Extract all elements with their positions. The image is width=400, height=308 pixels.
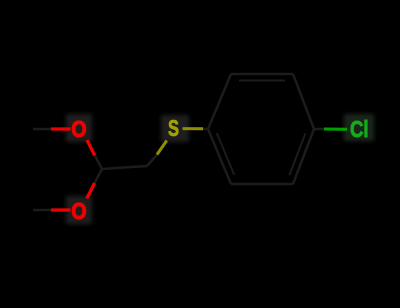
svg-text:Cl: Cl (350, 116, 369, 142)
wire: upper methoxy O half (red) (51, 127, 71, 130)
svg-text:O: O (71, 198, 86, 224)
wire: CH2 to S, carbon half (147, 155, 157, 167)
wire: ring carbon to Cl, carbon half (314, 128, 324, 131)
benzene ring: edge L-TL (208, 74, 231, 129)
wire: S to ring carbon, carbon half (203, 128, 208, 131)
benzene ring: edge R-BR (double bond outer) (293, 129, 314, 184)
wire: O1 to acetal CH, carbon half (95, 156, 102, 170)
benzene ring: edge TR-R (293, 74, 314, 129)
wire: O2 to acetal CH, red half (87, 183, 95, 199)
benzene ring: edge BL-L (double bond outer) (208, 129, 231, 184)
jpeg halo upper O (66, 114, 92, 142)
benzene ring: edge TL-TR (double bond outer) (231, 73, 293, 76)
wire: O2 to acetal CH, carbon half (95, 169, 102, 183)
wire: ring carbon to Cl, chlorine half (green) (324, 127, 347, 130)
benzene ring: edge BR-BL (231, 183, 293, 186)
wire: CH2 to S, sulfur half (olive) (157, 141, 167, 155)
svg-text:S: S (168, 115, 179, 141)
wire: S to ring carbon, sulfur half (olive) (183, 127, 204, 130)
wire: upper methyl C-H3C carbon half (33, 128, 51, 131)
benzene ring: R-BR inner double bond line (289, 133, 305, 175)
jpeg halo S (161, 115, 189, 142)
benzene ring: BL-L inner double bond line (217, 133, 234, 175)
jpeg halo lower O (66, 196, 92, 224)
wire: lower methoxy O half (red) (51, 208, 71, 211)
svg-text:O: O (71, 116, 86, 142)
jpeg halo Cl (344, 114, 374, 141)
wire: lower methyl carbon half (33, 209, 51, 212)
wire: acetal CH to CH2 (carbon-carbon) (102, 166, 147, 169)
wire: O1 to acetal CH, red half (87, 140, 95, 156)
benzene ring: TL-TR inner double bond line (239, 80, 285, 82)
